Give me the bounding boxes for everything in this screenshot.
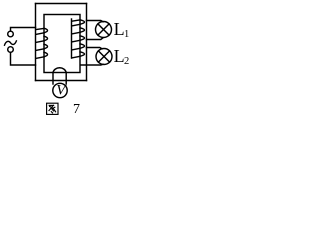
wire top horizontal (36, 3, 87, 5)
AC source terminal top (8, 31, 14, 37)
wire voltmeter right lead (65, 73, 67, 85)
voltmeter V (53, 83, 67, 99)
caption figure glyph (tu2) (47, 103, 58, 114)
voltmeter pickup loop over core bottom limb (53, 68, 66, 73)
svg-text:L: L (114, 19, 125, 39)
svg-text:7: 7 (73, 102, 80, 117)
secondary coil S (right winding, 5 turns) (72, 20, 85, 58)
AC source terminal bottom (8, 47, 14, 53)
wire lamp L1 top stub (87, 21, 104, 22)
wire bottom horizontal (36, 80, 87, 82)
wire lamp L1 bottom stub (87, 38, 104, 40)
wire left rail vertical (35, 4, 37, 81)
lamp L1 (96, 22, 112, 38)
svg-text:L: L (114, 46, 125, 66)
wire AC source top lead (11, 28, 36, 32)
AC source tilde symbol (5, 41, 17, 45)
secondary coil S inner rail (71, 19, 73, 58)
label L1 (114, 19, 130, 40)
primary coil P (left winding, 4 turns) (36, 28, 48, 58)
wire AC source bottom lead (11, 53, 36, 66)
wire lamp L2 bottom stub (81, 63, 104, 66)
svg-text:1: 1 (124, 29, 129, 40)
lamp L2 (96, 49, 112, 65)
wire right bus vertical (86, 4, 88, 81)
label L2 (114, 46, 130, 67)
wire voltmeter left lead (52, 73, 54, 85)
transformer core (44, 15, 80, 73)
caption figure number 7 (73, 102, 80, 117)
svg-text:2: 2 (124, 56, 129, 67)
wire lamp L2 top stub (87, 48, 103, 49)
